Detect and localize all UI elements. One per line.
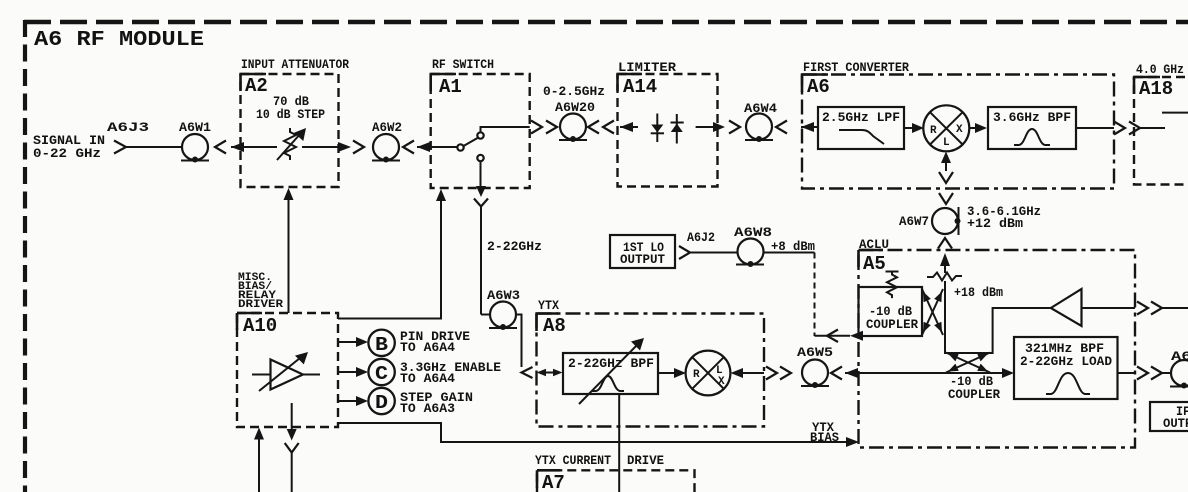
svg-text:R: R <box>693 369 700 381</box>
wire A6W3 to YTX input <box>516 315 522 368</box>
svg-text:TO A6A4: TO A6A4 <box>400 340 455 355</box>
svg-text:2-22GHz BPF: 2-22GHz BPF <box>568 356 654 371</box>
box IF OUTPUT (clipped) <box>1150 402 1188 431</box>
wire attenuator to A6W2 with right arrow <box>302 146 339 148</box>
svg-text:TO A6A4: TO A6A4 <box>400 371 455 386</box>
wire BPF to mixer <box>658 372 674 374</box>
svg-text:L: L <box>943 137 950 149</box>
wire YTX BIAS line <box>338 423 847 442</box>
svg-text:INPUT ATTENUATOR: INPUT ATTENUATOR <box>241 57 349 72</box>
chevrons before limiter <box>588 121 614 134</box>
svg-text:OUTPUT: OUTPUT <box>620 252 665 267</box>
svg-text:TO A6A3: TO A6A3 <box>400 401 455 416</box>
svg-text:COUPLER: COUPLER <box>866 317 918 332</box>
mixer U2 YTX <box>686 351 731 396</box>
wire out of limiter with right arrow <box>696 126 713 128</box>
wire LO to A5 (dashed drop) <box>764 252 815 254</box>
svg-text:0-2.5GHz: 0-2.5GHz <box>543 84 605 99</box>
op-amp LO amplifier (points left) <box>1051 289 1135 326</box>
cable A6W5 <box>797 345 833 388</box>
wire mixer to BPF <box>970 127 977 129</box>
box A10 MISC BIAS RELAY DRIVER <box>237 272 338 427</box>
svg-text:A6J2: A6J2 <box>687 230 715 245</box>
svg-text:R: R <box>930 125 937 137</box>
filter FL2 3.6GHz BPF <box>988 107 1076 149</box>
svg-text:A7: A7 <box>542 472 565 492</box>
svg-text:C: C <box>375 363 388 385</box>
filter FL3 2-22GHz BPF (tunable) <box>563 338 658 404</box>
cable A6W7 <box>899 207 961 235</box>
svg-text:0-22 GHz: 0-22 GHz <box>33 146 101 161</box>
cable A6W20 <box>555 100 595 142</box>
cable A6W8 <box>734 225 772 267</box>
box A5 ACLU <box>859 237 1136 448</box>
module border left <box>23 20 27 492</box>
wire 2-22GHz down <box>480 207 482 315</box>
node C 3.3GHz enable <box>338 359 501 386</box>
coupler cross (lower) <box>946 350 990 375</box>
svg-text:A18: A18 <box>1139 78 1173 100</box>
wire LO out <box>690 252 737 254</box>
wire LO vertical in A5 <box>945 281 1051 353</box>
svg-text:X: X <box>718 376 725 388</box>
diode CR2 (up) <box>671 114 684 144</box>
flexible cable squiggle on LO line <box>927 273 962 281</box>
wire out of 321MHz BPF <box>1118 372 1136 374</box>
op-amp relay driver symbol <box>252 352 320 391</box>
svg-text:4.0 GHz: 4.0 GHz <box>1136 62 1184 77</box>
svg-text:A6: A6 <box>807 76 830 98</box>
wire to switch pole with left arrow <box>417 146 457 148</box>
wire LPF to mixer <box>904 127 913 129</box>
svg-text:OUTPUT: OUTPUT <box>1163 416 1188 431</box>
svg-text:A10: A10 <box>243 315 277 337</box>
svg-text:2-22GHz: 2-22GHz <box>487 239 542 254</box>
svg-text:RF SWITCH: RF SWITCH <box>432 57 494 72</box>
cable A6W2 <box>372 120 402 163</box>
svg-text:FIRST CONVERTER: FIRST CONVERTER <box>803 60 909 75</box>
svg-text:B: B <box>375 334 388 356</box>
wire into limiter with left arrow <box>620 126 638 128</box>
node D step gain <box>338 388 473 416</box>
svg-text:A1: A1 <box>439 76 462 98</box>
cable A6W1 <box>179 120 211 163</box>
box A6 FIRST CONVERTER <box>802 60 1114 189</box>
box A14 LIMITER <box>618 60 718 187</box>
box -10 dB coupler (upper) <box>859 287 923 336</box>
svg-text:A6W5: A6W5 <box>797 345 833 360</box>
attenuator symbol (variable) <box>277 128 306 160</box>
cable A6W6 (clipped) <box>1170 349 1188 389</box>
svg-text:A2: A2 <box>245 75 268 97</box>
filter FL4 321MHz BPF 2-22GHz LOAD <box>1014 337 1118 399</box>
chevrons after switch <box>531 121 557 134</box>
svg-text:3.6GHz BPF: 3.6GHz BPF <box>993 110 1071 125</box>
box 1ST LO OUTPUT <box>610 235 675 268</box>
wire mixer to A6W5 with left arrow <box>742 372 764 374</box>
svg-text:A6W7: A6W7 <box>899 214 929 229</box>
wire BPF to A18 <box>1076 127 1114 129</box>
cable A6W3 <box>481 288 520 330</box>
svg-text:10 dB STEP: 10 dB STEP <box>256 107 325 122</box>
node B pin drive <box>338 329 470 356</box>
chevron and left arrow into first converter <box>776 121 787 134</box>
svg-text:A8: A8 <box>543 315 566 337</box>
svg-text:YTX: YTX <box>538 298 559 313</box>
wire down from A10 <box>291 403 293 429</box>
chevron and left arrow into A5 <box>831 367 842 380</box>
chevron below A6W7 <box>938 238 952 249</box>
resistor termination R1 <box>886 272 899 299</box>
svg-text:X: X <box>956 124 963 136</box>
svg-text:A6J3: A6J3 <box>107 120 149 135</box>
coupler cross (upper) <box>919 289 945 335</box>
cable A6W4 <box>744 101 777 142</box>
svg-text:DRIVE: DRIVE <box>627 453 664 468</box>
wire A10 to A2 (atten drive) <box>288 199 290 313</box>
svg-text:A6 RF MODULE: A6 RF MODULE <box>34 29 204 52</box>
svg-text:D: D <box>375 392 388 414</box>
svg-text:DRIVER: DRIVER <box>238 299 283 311</box>
wire mixer LO port down <box>941 152 951 164</box>
box A8 YTX <box>537 298 765 427</box>
chevron right of A6W2 <box>403 141 414 154</box>
svg-text:A6W1: A6W1 <box>179 120 211 135</box>
box A18 <box>1134 62 1188 185</box>
wire YTX BPF to A7 <box>618 394 620 492</box>
svg-text:COUPLER: COUPLER <box>948 387 1000 402</box>
filter FL1 2.5GHz LPF <box>818 107 904 149</box>
svg-text:A14: A14 <box>623 76 657 98</box>
wire A10 to A1 (switch drive) <box>338 200 441 319</box>
svg-text:YTX CURRENT: YTX CURRENT <box>535 453 611 468</box>
wire with left arrow into attenuator <box>231 146 277 148</box>
arrow up inside A5 <box>940 253 950 266</box>
svg-text:2.5GHz LPF: 2.5GHz LPF <box>822 110 900 125</box>
wire signal in <box>126 146 182 148</box>
svg-text:2-22GHz LOAD: 2-22GHz LOAD <box>1020 354 1112 369</box>
switch S1 <box>457 127 529 161</box>
svg-text:A6W2: A6W2 <box>372 120 402 135</box>
input chevron <box>114 141 126 154</box>
diode CR1 (down) <box>651 114 664 143</box>
mixer U1 first converter <box>923 105 969 151</box>
wire up into A10 bottom <box>258 439 260 492</box>
svg-text:+18 dBm: +18 dBm <box>954 285 1003 300</box>
module border top <box>24 20 1188 25</box>
box A2 INPUT ATTENUATOR <box>241 57 350 187</box>
box A7 YTX CURRENT DRIVE <box>535 453 695 492</box>
wire switch lower contact down <box>480 161 482 186</box>
svg-text:+12 dBm: +12 dBm <box>967 216 1023 231</box>
svg-text:A5: A5 <box>863 253 886 275</box>
wire double arrow into YTX BPF <box>540 372 560 374</box>
box A1 RF SWITCH <box>431 57 530 188</box>
chevron into A2 <box>215 141 226 154</box>
